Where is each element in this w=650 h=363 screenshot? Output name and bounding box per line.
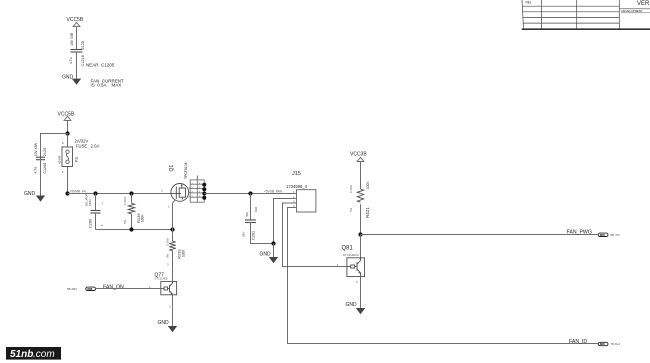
off-page connector FAN_ID — [598, 342, 608, 346]
value 2A/32V FUSE 2.0A — [75, 138, 100, 148]
wire Q77 emitter to GND — [172, 295, 174, 326]
node FAN_PWG — [358, 232, 362, 236]
svg-text:100u: 100u — [88, 199, 92, 206]
svg-text:C1218: C1218 — [81, 55, 85, 66]
resistor R139 — [169, 241, 175, 281]
fuse F4 — [62, 147, 73, 167]
svg-text:FUSE 2.0A: FUSE 2.0A — [76, 143, 99, 148]
node C201 / GND — [271, 241, 275, 245]
wire drain to J15 pin1 — [204, 193, 296, 195]
note FAN CURRENT IS 0.5A MAX — [91, 78, 125, 87]
svg-text:IS 0.5A MAX: IS 0.5A MAX — [91, 82, 122, 87]
svg-text:GND: GND — [24, 191, 36, 197]
svg-text:X5R: X5R — [34, 142, 38, 149]
svg-text:4.7u: 4.7u — [69, 57, 73, 64]
svg-text:888: 888 — [87, 287, 92, 291]
svg-text:GND: GND — [158, 320, 170, 326]
svg-text:100: 100 — [254, 207, 258, 212]
svg-text:41668: 41668 — [58, 155, 62, 164]
wire lower rail — [96, 229, 173, 231]
svg-text:DTC114EKA: DTC114EKA — [343, 253, 359, 257]
svg-text:100K: 100K — [182, 249, 186, 257]
svg-text:1/16W: 1/16W — [123, 197, 127, 205]
drain nodes (pins 5,6,7,8) — [202, 183, 206, 200]
svg-text:1734598_4: 1734598_4 — [286, 184, 308, 189]
capacitor C1218 — [71, 50, 83, 53]
capacitor C1206 — [36, 157, 45, 160]
off-page connector FAN_PWG — [598, 233, 608, 237]
wire fuse to rail node — [67, 167, 69, 194]
wire node to Q81 collector — [360, 235, 362, 261]
wire gate junction to R139 — [172, 230, 174, 242]
node R136 top — [129, 191, 133, 195]
wire Q81 emitter to GND — [360, 277, 362, 309]
svg-text:2: 2 — [356, 280, 358, 284]
wire J15 pin3 to Q81 base — [283, 203, 347, 267]
value 1/16W 5% (R139) — [166, 238, 170, 258]
svg-text:GND: GND — [346, 302, 358, 308]
svg-text:4.7u: 4.7u — [34, 167, 38, 174]
svg-text:1: 1 — [168, 205, 170, 209]
capacitor C201 — [245, 194, 274, 244]
wire VCC3B to R421 — [360, 162, 362, 190]
wire node to C1206 — [41, 134, 68, 160]
wire node to fuse — [67, 134, 69, 148]
svg-text:100K: 100K — [366, 181, 370, 189]
ground (C1206) — [24, 191, 45, 202]
svg-text:GND: GND — [260, 251, 272, 257]
transistor Q77 (digital NPN) — [161, 281, 177, 294]
svg-text:10V: 10V — [34, 150, 38, 157]
watermark 51nb.com — [6, 347, 61, 360]
wire J15 pin2 to GND — [274, 199, 297, 244]
svg-text:FAN_ON: FAN_ON — [103, 285, 124, 291]
svg-text:100K: 100K — [141, 214, 145, 222]
svg-text:R421: R421 — [365, 207, 370, 218]
wire C1218 to GND — [76, 52, 78, 79]
svg-text:FAN_PWG: FAN_PWG — [567, 230, 592, 236]
wire VCC5B to C1218 — [76, 27, 78, 50]
off-page connector FAN_ON — [86, 287, 96, 291]
svg-text:J15: J15 — [292, 171, 301, 177]
cell divider VER / DEVELOPMENT — [619, 8, 650, 10]
value 1/16W 5% (R421) — [349, 185, 353, 212]
svg-text:VCC3B: VCC3B — [350, 152, 367, 158]
value X5R 10V 4.7u (C1218) — [69, 32, 74, 64]
ground (C1218) — [62, 75, 81, 85]
svg-text:F4: F4 — [74, 156, 79, 162]
power VCC5B (fuse feed) — [58, 112, 75, 121]
svg-text:888: 888 — [600, 233, 605, 237]
transistor Q81 (digital NPN) — [347, 258, 365, 277]
svg-text:Q81: Q81 — [342, 246, 354, 252]
transistor Q1 (P-ch MOSFET) — [171, 184, 189, 202]
svg-text:3: 3 — [161, 189, 163, 193]
svg-text:5%: 5% — [166, 253, 170, 258]
drain pin ladder (Q1 pins 5-8) — [189, 180, 205, 202]
capacitor C200 — [91, 194, 101, 230]
ground (Q81) — [346, 302, 366, 314]
svg-text:7B.8L4: 7B.8L4 — [611, 342, 621, 346]
svg-text:+: + — [100, 202, 104, 204]
svg-text:C200: C200 — [89, 219, 93, 228]
svg-text:888: 888 — [600, 342, 605, 346]
svg-text:NEAR C1205: NEAR C1205 — [86, 62, 115, 67]
value 100u 5% (C201) — [242, 207, 259, 237]
wire gate to junction — [173, 200, 176, 230]
wire rail to Q1 source — [68, 193, 172, 195]
svg-text:5%: 5% — [123, 219, 127, 224]
wire J15 pin4 to FAN_ID — [288, 208, 598, 344]
svg-text:FAN_ID: FAN_ID — [569, 339, 587, 345]
svg-text:DTC114EB: DTC114EB — [155, 277, 168, 281]
svg-text:Q1: Q1 — [169, 165, 175, 172]
svg-text:2125: 2125 — [81, 41, 85, 49]
svg-text:5%: 5% — [349, 207, 353, 212]
title block revision table — [522, 0, 619, 29]
svg-text:10V: 10V — [70, 39, 74, 46]
svg-text:VCC5B: VCC5B — [58, 112, 75, 118]
pin numbers (Q1 ladder) — [192, 183, 202, 198]
resistor R421 — [357, 189, 363, 235]
svg-text:+5VSB_FAN: +5VSB_FAN — [264, 190, 283, 194]
power VCC5B (top) — [67, 17, 84, 27]
value 1/16W 5% (R136) — [123, 197, 127, 224]
svg-text:DEVELOPMENT: DEVELOPMENT — [622, 9, 643, 13]
svg-text:C201: C201 — [252, 231, 256, 240]
svg-text:2: 2 — [169, 305, 171, 309]
refdes R139 / value 100K — [177, 249, 186, 259]
svg-text:X5R: X5R — [70, 32, 74, 39]
title block border (bottom) — [522, 28, 650, 30]
node C201 top — [248, 191, 252, 195]
power VCC3B — [350, 152, 367, 162]
wire C1206 to GND — [40, 160, 42, 196]
wire FAN_PWG — [361, 234, 598, 236]
pin 8 stub (Q1 drain tab) — [196, 176, 198, 180]
resistor R136 — [128, 194, 134, 230]
ground (J15) — [260, 251, 279, 263]
svg-text:.com: .com — [33, 349, 55, 360]
svg-text:REL: REL — [526, 0, 532, 4]
node R136 bottom — [129, 227, 133, 231]
refdes R136 / value 100K — [136, 213, 145, 223]
svg-text:3: 3 — [167, 263, 169, 267]
svg-text:1: 1 — [100, 224, 104, 226]
svg-text:C1206: C1206 — [43, 163, 47, 174]
node +5VMR_F4 — [65, 191, 69, 195]
svg-text:VER: VER — [637, 1, 650, 7]
svg-text:VCC5B: VCC5B — [67, 17, 84, 23]
wire node to ground — [273, 244, 275, 258]
svg-text:2: 2 — [62, 141, 64, 145]
svg-text:51nb: 51nb — [10, 349, 33, 360]
svg-text:1/16W: 1/16W — [166, 238, 170, 246]
ground (Q77) — [158, 320, 178, 332]
svg-text:8B.2B4: 8B.2B4 — [67, 287, 77, 291]
svg-text:8B.47h: 8B.47h — [611, 233, 621, 237]
svg-text:TPCF8104: TPCF8104 — [184, 162, 188, 179]
connector J15 body — [297, 190, 316, 212]
svg-text:1/16W: 1/16W — [349, 185, 353, 193]
node gate junction — [170, 227, 174, 231]
svg-text:2125: 2125 — [43, 148, 47, 156]
svg-text:1: 1 — [62, 170, 64, 174]
node junction VCC5B / C1206 / F4 — [65, 131, 69, 135]
svg-text:5%: 5% — [245, 212, 249, 217]
wire FAN_ON to Q77 base — [96, 288, 161, 290]
value 2125 / refdes C1206 — [43, 148, 47, 174]
node C200 top — [93, 191, 97, 195]
value NO_POP 100u (C200) — [85, 193, 105, 226]
value 2125 / refdes C1218 — [81, 41, 85, 66]
svg-text:GND: GND — [62, 75, 74, 81]
svg-text:25V: 25V — [242, 232, 246, 237]
wire VCC5B down to node — [67, 120, 69, 133]
value X5R 10V 4.7u (C1206) — [34, 142, 39, 173]
